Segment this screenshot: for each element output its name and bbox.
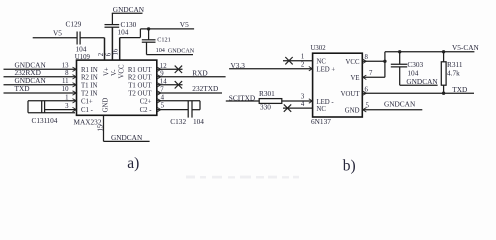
- svg-text:V5: V5: [53, 28, 62, 37]
- svg-text:104: 104: [76, 45, 87, 54]
- svg-text:16: 16: [113, 48, 120, 55]
- svg-text:2: 2: [301, 61, 305, 68]
- svg-text:VCC: VCC: [119, 64, 126, 78]
- svg-text:T1 IN: T1 IN: [81, 82, 98, 89]
- svg-text:T2 IN: T2 IN: [81, 91, 98, 98]
- svg-text:R1 IN: R1 IN: [81, 67, 98, 74]
- svg-text:NC: NC: [317, 106, 327, 113]
- svg-text:VOUT: VOUT: [341, 91, 361, 98]
- svg-text:5: 5: [161, 102, 165, 109]
- svg-text:LED +: LED +: [317, 67, 336, 74]
- svg-text:GNDCAN: GNDCAN: [111, 133, 143, 142]
- svg-text:15: 15: [97, 124, 104, 131]
- svg-text:6N137: 6N137: [311, 117, 331, 126]
- svg-text:GNDCAN: GNDCAN: [384, 99, 416, 108]
- svg-text:5: 5: [366, 103, 370, 110]
- svg-text:104: 104: [156, 47, 165, 54]
- svg-text:T2 OUT: T2 OUT: [128, 91, 152, 98]
- svg-text:6: 6: [105, 52, 112, 56]
- svg-text:V+: V+: [104, 67, 111, 76]
- svg-text:104: 104: [118, 27, 129, 36]
- svg-text:13: 13: [62, 62, 69, 69]
- svg-text:10: 10: [62, 86, 69, 93]
- svg-text:C1+: C1+: [81, 98, 93, 105]
- svg-text:7: 7: [369, 70, 373, 77]
- svg-text:1: 1: [301, 54, 304, 61]
- svg-text:C131: C131: [32, 116, 48, 125]
- svg-text:4: 4: [161, 94, 165, 101]
- svg-text:LED -: LED -: [317, 99, 335, 106]
- svg-text:U302: U302: [311, 45, 327, 52]
- svg-text:GNDCAN: GNDCAN: [113, 5, 145, 14]
- svg-text:R301: R301: [259, 89, 275, 98]
- svg-text:VCC: VCC: [346, 59, 360, 66]
- svg-text:GNDCAN: GNDCAN: [406, 77, 438, 86]
- svg-text:104: 104: [47, 116, 58, 125]
- svg-text:T1 OUT: T1 OUT: [128, 82, 152, 89]
- svg-text:C132: C132: [170, 117, 186, 126]
- svg-text:104: 104: [193, 117, 204, 126]
- svg-text:C129: C129: [66, 20, 82, 29]
- svg-text:GNDCAN: GNDCAN: [168, 48, 195, 55]
- svg-text:TXD: TXD: [452, 85, 467, 94]
- svg-text:V5: V5: [180, 20, 189, 29]
- svg-text:C2 -: C2 -: [140, 107, 153, 114]
- svg-text:330: 330: [260, 102, 271, 111]
- svg-text:TXD: TXD: [15, 84, 30, 93]
- svg-text:2: 2: [98, 52, 105, 56]
- svg-text:U109: U109: [75, 54, 91, 61]
- svg-text:4.7k: 4.7k: [447, 68, 460, 77]
- svg-text:8: 8: [365, 54, 369, 61]
- svg-text:VE: VE: [350, 75, 359, 82]
- svg-text:a): a): [127, 155, 139, 172]
- svg-text:14: 14: [160, 78, 167, 85]
- svg-text:GND: GND: [345, 108, 360, 115]
- svg-text:V5-CAN: V5-CAN: [452, 43, 479, 52]
- svg-text:C121: C121: [157, 36, 170, 43]
- svg-text:RXD: RXD: [192, 68, 207, 77]
- svg-text:C1 -: C1 -: [81, 107, 94, 114]
- svg-text:12: 12: [160, 63, 167, 70]
- svg-text:3: 3: [301, 94, 305, 101]
- svg-text:C2+: C2+: [140, 98, 152, 105]
- svg-text:232TXD: 232TXD: [192, 84, 218, 93]
- svg-text:NC: NC: [317, 59, 327, 66]
- svg-text:R2 OUT: R2 OUT: [128, 74, 152, 81]
- svg-text:11: 11: [62, 78, 69, 85]
- svg-text:8: 8: [65, 70, 69, 77]
- svg-text:4: 4: [301, 101, 305, 108]
- svg-text:b): b): [343, 157, 356, 174]
- svg-text:GND: GND: [102, 98, 109, 113]
- svg-text:R2 IN: R2 IN: [81, 74, 98, 81]
- svg-text:R1 OUT: R1 OUT: [128, 67, 152, 74]
- svg-text:V-: V-: [111, 69, 118, 76]
